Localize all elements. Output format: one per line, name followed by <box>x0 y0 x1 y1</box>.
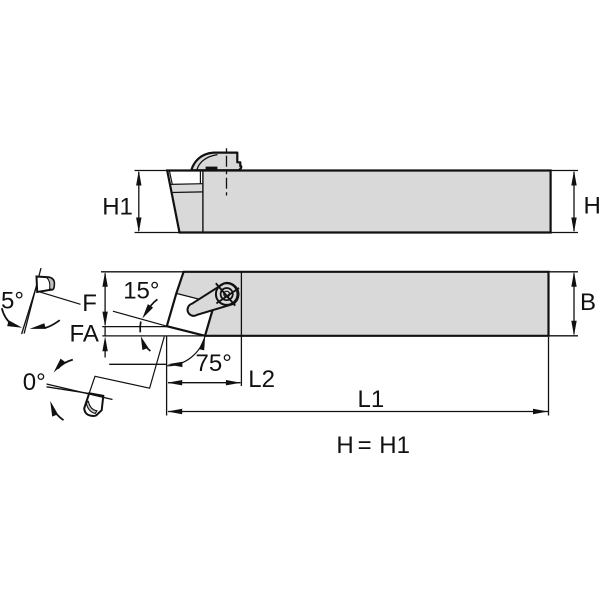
5 deg figure reference line <box>24 268 41 334</box>
top view shank body <box>167 171 550 233</box>
dimension H1 arrow line <box>138 172 140 231</box>
svg-text:15°: 15° <box>123 277 159 304</box>
line A tip level <box>102 326 167 328</box>
dimension L2 line <box>168 382 241 384</box>
screw cross line 1 <box>216 283 235 305</box>
top view shank outline <box>167 171 550 233</box>
svg-text:-5°: -5° <box>0 288 24 315</box>
clamp body top view <box>191 153 241 171</box>
15 deg top curved arrow <box>147 299 158 312</box>
0 deg cross-section inner gray <box>86 401 97 413</box>
5 deg left arc arrow <box>2 308 12 324</box>
insert right edge <box>205 303 215 336</box>
L extension line at tip <box>166 336 168 415</box>
dimension L1 line <box>168 411 548 413</box>
L1 extension line right <box>548 337 550 416</box>
svg-text:75°: 75° <box>196 350 232 377</box>
insert white rhombus <box>167 293 215 335</box>
flag inner gray curl <box>47 277 55 289</box>
5 deg right arc arrow <box>45 320 60 328</box>
svg-text:L1: L1 <box>358 386 385 413</box>
0 deg upper line <box>47 384 113 400</box>
svg-text:0°: 0° <box>23 369 46 396</box>
insert top edge line <box>176 293 214 303</box>
clamp screw dashed centerline <box>226 148 228 195</box>
projection zigzag to 0 deg view <box>89 337 164 394</box>
front view shank and head body <box>167 272 549 336</box>
5 deg figure face line <box>22 288 36 334</box>
screw cross line 2 <box>216 288 239 303</box>
F extension line (bar top extended) <box>101 271 184 273</box>
dimension H arrow line <box>573 172 575 231</box>
clamp inner arc line <box>197 155 218 171</box>
dimension B arrow line <box>573 273 575 334</box>
75 deg arc arrow at vertical <box>167 362 182 367</box>
svg-text:L2: L2 <box>248 366 275 393</box>
H1 extension line top <box>135 170 168 172</box>
0 deg top arc arrow <box>58 360 73 369</box>
clamp screw outer circle <box>216 283 238 305</box>
top view insert pocket white wedge <box>167 171 203 184</box>
dimension F arrow line <box>104 273 106 325</box>
top view head-shank boundary line <box>202 171 204 233</box>
FA connector segment <box>104 327 106 336</box>
svg-text:B: B <box>580 289 596 316</box>
line B nose level <box>102 335 205 337</box>
clamp screw inner circle <box>224 291 230 297</box>
top view pocket back wall line <box>199 171 201 184</box>
L2 extension line through bar <box>240 272 242 386</box>
svg-text:H1: H1 <box>102 193 133 220</box>
15 deg bottom curved arrow <box>143 343 150 351</box>
svg-text:H1: H1 <box>379 432 410 459</box>
0 deg insert cross-section <box>84 393 103 416</box>
top view insert strip bottom line <box>172 191 203 194</box>
leader line from flag to F <box>39 292 80 305</box>
clamp screw middle circle <box>221 288 233 300</box>
75 deg arc <box>167 336 205 366</box>
svg-text:=: = <box>358 432 372 459</box>
front view outline <box>167 272 549 336</box>
top view insert strip top line <box>170 183 203 186</box>
H1 extension line bottom <box>135 232 180 234</box>
0 deg lower line <box>47 387 90 394</box>
B extension line top <box>549 271 579 273</box>
svg-text:H: H <box>336 432 353 459</box>
75 deg arc arrow at nose <box>199 335 205 350</box>
75 deg horizontal reference line <box>109 363 166 365</box>
top view pocket inner edge line <box>169 171 172 184</box>
svg-text:FA: FA <box>70 321 99 348</box>
5 deg insert cross-section flag <box>37 277 55 293</box>
svg-text:F: F <box>82 290 97 317</box>
H extension line bottom <box>551 232 578 234</box>
clamp nose thick bar <box>206 167 218 170</box>
0 deg bottom arc arrow <box>52 408 63 421</box>
svg-text:H: H <box>584 193 600 220</box>
clamp lever arm <box>188 283 239 316</box>
FA up arrow <box>104 349 106 358</box>
B extension line bottom <box>549 335 579 337</box>
H extension line top <box>551 170 578 172</box>
cutting edge extension line 15 deg <box>113 311 167 326</box>
